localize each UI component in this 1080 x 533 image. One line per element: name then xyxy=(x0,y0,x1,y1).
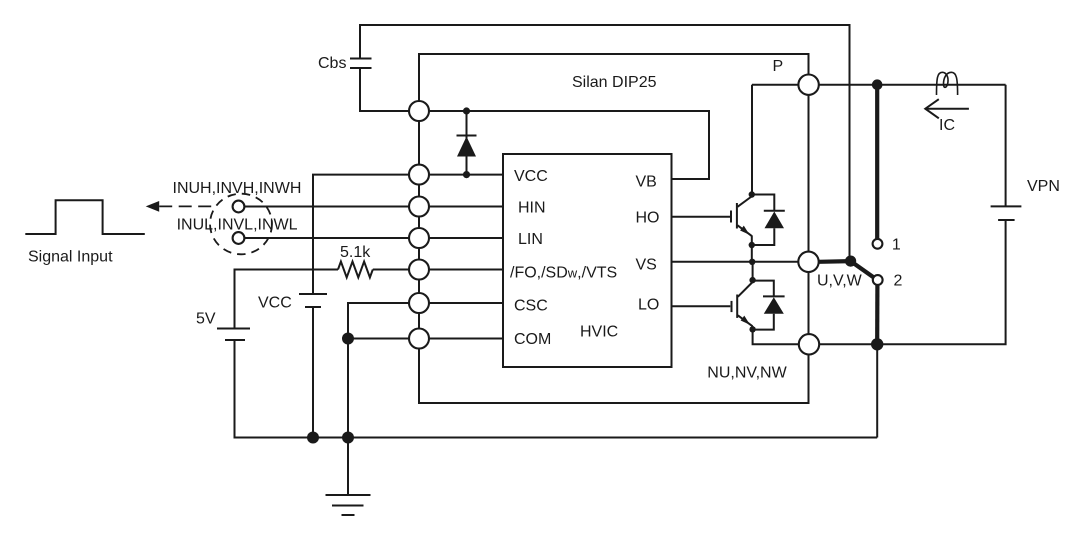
svg-text:LO: LO xyxy=(638,297,659,314)
svg-text:HVIC: HVIC xyxy=(580,324,618,341)
wire VB bus from top pin xyxy=(419,111,709,179)
wire resistor to /FO pin xyxy=(373,269,503,271)
svg-text:HIN: HIN xyxy=(518,200,546,217)
inductor IC sense xyxy=(937,72,958,95)
capacitor Cbs xyxy=(350,59,372,69)
wire P rail xyxy=(752,84,1006,86)
node pin HIN xyxy=(409,197,429,217)
diode lower freewheel xyxy=(753,281,785,330)
junction upper emitter VS xyxy=(749,259,755,265)
svg-text:VB: VB xyxy=(636,174,657,191)
svg-text:U,V,W: U,V,W xyxy=(817,273,863,290)
transistor upper IGBT xyxy=(731,196,752,262)
wire VS to pivot (thick) xyxy=(819,259,851,264)
node P xyxy=(798,75,818,95)
svg-text:VCC: VCC xyxy=(258,295,292,312)
node N NU,NV,NW xyxy=(799,334,819,354)
wire collector upper IGBT xyxy=(751,85,753,195)
wire LO gate xyxy=(672,305,731,307)
svg-text:Silan DIP25: Silan DIP25 xyxy=(572,74,657,91)
svg-text:Signal Input: Signal Input xyxy=(28,249,113,266)
ground xyxy=(326,438,371,516)
svg-text:VCC: VCC xyxy=(514,168,548,185)
module outline Silan DIP25 xyxy=(419,54,809,403)
pulse waveform Signal Input xyxy=(25,200,145,234)
node input high terminal xyxy=(233,201,245,213)
node pin /FO xyxy=(409,260,429,280)
node contact 1 xyxy=(873,239,883,249)
wire 5V to ground rail xyxy=(235,340,878,438)
wire N node to ground rail xyxy=(876,344,878,437)
wire VCC to ground rail xyxy=(312,307,314,438)
junction CSC-rail xyxy=(342,432,354,444)
wire LIN row xyxy=(239,237,503,239)
wire HIN row xyxy=(239,206,503,208)
svg-text:CSC: CSC xyxy=(514,298,548,315)
junction P rail to switch xyxy=(872,79,883,90)
svg-text:INUH,INVH,INWH: INUH,INVH,INWH xyxy=(173,180,302,197)
junction diode bottom xyxy=(463,171,470,178)
wire CSC row xyxy=(348,303,503,438)
dashed arrow to signal input xyxy=(146,201,212,212)
diode bootstrap xyxy=(457,111,477,175)
svg-text:NU,NV,NW: NU,NV,NW xyxy=(707,365,787,382)
wire N row xyxy=(809,343,878,345)
junction N node xyxy=(871,338,883,350)
wire /FO row to 5V xyxy=(235,270,339,329)
wire VPN bottom to N node xyxy=(877,220,1005,344)
node pin VCC xyxy=(409,165,429,185)
node pin CSC xyxy=(409,293,429,313)
wire HO gate xyxy=(672,216,731,218)
IC HVIC inner box xyxy=(503,154,672,367)
wire VCC vertical top xyxy=(313,175,503,294)
svg-text:LIN: LIN xyxy=(518,231,543,248)
wire top bootstrap from Cbs to switch column xyxy=(360,25,850,261)
dashed ellipse around input terminals xyxy=(210,194,272,255)
svg-text:IC: IC xyxy=(939,117,955,134)
node contact 2 xyxy=(873,275,883,285)
svg-text:5V: 5V xyxy=(196,311,216,328)
arrow IC direction xyxy=(925,99,969,118)
node pin COM xyxy=(409,329,429,349)
wire Cbs bottom to pin row xyxy=(360,68,419,111)
svg-text:INUL,INVL,INWL: INUL,INVL,INWL xyxy=(177,217,298,234)
junction lower emitter xyxy=(749,326,755,332)
wire VS row xyxy=(672,261,809,263)
battery VPN xyxy=(991,206,1022,220)
node input low terminal xyxy=(233,232,245,244)
wire VPN right rail xyxy=(1005,85,1007,206)
svg-text:1: 1 xyxy=(892,237,901,254)
resistor 5.1k xyxy=(338,262,373,278)
junction lower collector xyxy=(749,277,755,283)
node pin top (bootstrap) xyxy=(409,101,429,121)
junction switch pivot xyxy=(845,256,856,267)
svg-text:2: 2 xyxy=(894,273,903,290)
svg-text:COM: COM xyxy=(514,331,551,348)
junction diode top xyxy=(463,107,470,114)
diode upper freewheel xyxy=(752,195,785,246)
transistor lower IGBT xyxy=(732,262,809,345)
junction VCC-rail xyxy=(307,432,319,444)
svg-text:VS: VS xyxy=(636,257,657,274)
battery 5V xyxy=(217,329,250,341)
svg-text:VPN: VPN xyxy=(1027,178,1060,195)
junction upper emitter xyxy=(749,242,755,248)
wire COM row xyxy=(348,338,503,340)
svg-text:P: P xyxy=(773,58,784,75)
battery VCC xyxy=(299,294,327,307)
node pin LIN xyxy=(409,228,429,248)
svg-text:/FO,/SDw,/VTS: /FO,/SDw,/VTS xyxy=(510,265,617,282)
wire switch contact 1 (thick) xyxy=(875,85,879,239)
junction COM-CSC xyxy=(342,333,354,345)
svg-text:HO: HO xyxy=(636,210,660,227)
junction upper collector xyxy=(749,191,755,197)
node VS U,V,W xyxy=(798,252,818,272)
svg-text:Cbs: Cbs xyxy=(318,55,346,72)
wire switch blade xyxy=(851,261,874,277)
svg-text:5.1k: 5.1k xyxy=(340,244,371,261)
wire contact 2 to N node (thick) xyxy=(875,285,879,339)
